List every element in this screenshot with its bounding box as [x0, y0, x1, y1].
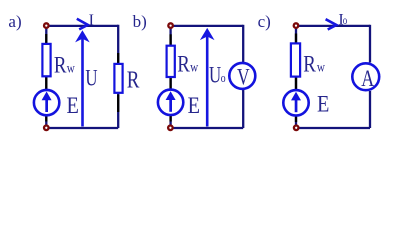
svg-text:V: V: [237, 65, 250, 90]
svg-text:E: E: [67, 93, 79, 118]
svg-text:w: w: [317, 59, 326, 74]
svg-text:R: R: [303, 51, 316, 77]
svg-text:E: E: [317, 92, 329, 117]
svg-text:R: R: [177, 51, 190, 77]
svg-text:c): c): [258, 12, 271, 31]
svg-text:E: E: [188, 93, 200, 118]
svg-text:o: o: [221, 72, 226, 86]
svg-text:b): b): [133, 12, 147, 31]
svg-text:R: R: [127, 67, 140, 94]
svg-text:w: w: [190, 60, 199, 75]
svg-text:U: U: [85, 66, 98, 91]
svg-text:R: R: [54, 52, 67, 78]
svg-text:o: o: [343, 15, 347, 27]
svg-text:w: w: [67, 60, 76, 75]
svg-text:U: U: [209, 63, 222, 88]
svg-text:I: I: [89, 12, 94, 29]
svg-text:A: A: [361, 67, 374, 92]
svg-text:a): a): [8, 12, 21, 31]
